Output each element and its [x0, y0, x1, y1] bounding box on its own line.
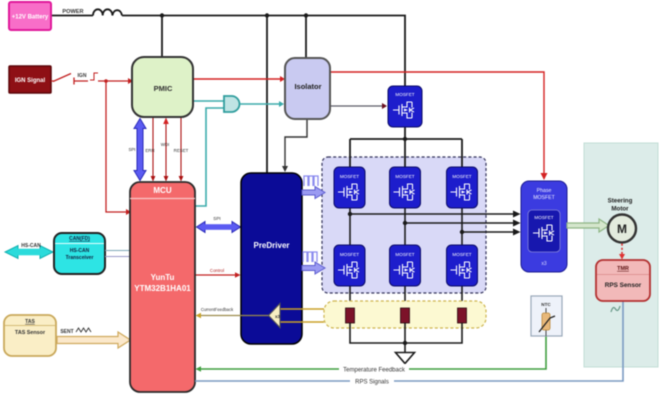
svg-text:MOSFET: MOSFET: [452, 252, 471, 257]
glyph RPS signal squiggle: [611, 306, 620, 312]
svg-text:MOSFET: MOSFET: [340, 252, 359, 257]
svg-text:SPI: SPI: [213, 216, 220, 221]
svg-text:YTM32B1HA01: YTM32B1HA01: [134, 284, 191, 293]
svg-text:+12V Battery: +12V Battery: [12, 15, 49, 21]
label Temperature Feedback: [339, 364, 409, 374]
MOSFET Q5: [390, 245, 421, 286]
Isolator U2: [285, 58, 330, 119]
svg-text:SPI: SPI: [128, 147, 135, 152]
svg-text:Temperature Feedback: Temperature Feedback: [343, 368, 406, 374]
svg-text:x3: x3: [541, 261, 547, 267]
svg-text:WDI: WDI: [161, 142, 170, 147]
svg-text:Steering: Steering: [608, 198, 633, 205]
wire CurrentFeedback to MCU: [196, 313, 269, 318]
label RESET: [174, 148, 189, 153]
svg-text:RPS Signals: RPS Signals: [355, 380, 389, 386]
PMIC U1: [132, 57, 193, 117]
TAS sensor: [4, 315, 56, 356]
MOSFET Q1: [334, 167, 365, 208]
node ground bus: [403, 341, 407, 345]
motor M1: [608, 215, 636, 243]
svg-text:x3: x3: [275, 314, 281, 319]
wire bank column A: [349, 208, 351, 245]
wire RESET: [179, 118, 184, 182]
arrow PreDriver to high side gates: [302, 187, 325, 199]
wire IGN to PMIC: [98, 78, 133, 84]
svg-text:Motor: Motor: [611, 206, 629, 213]
svg-text:Control: Control: [210, 268, 224, 273]
svg-text:PMIC: PMIC: [154, 84, 173, 93]
rising edge glyph IGN: [90, 73, 98, 80]
wire shunt sense top: [280, 308, 324, 310]
MOSFET bank (dashed box): [322, 157, 486, 293]
svg-text:PreDriver: PreDriver: [253, 241, 289, 250]
AND gate U3: [224, 96, 240, 112]
svg-text:MCU: MCU: [153, 186, 171, 195]
label HS-CAN: [21, 243, 41, 249]
MOSFET Q7 (reverse protection): [388, 86, 422, 127]
svg-text:CurrentFeedback: CurrentFeedback: [201, 307, 234, 312]
svg-text:ERR: ERR: [145, 148, 154, 153]
svg-text:CAN(FD): CAN(FD): [69, 236, 90, 242]
inductor L1: [93, 9, 122, 15]
shunt resistor RS3: [458, 308, 467, 323]
PreDriver U7: [241, 173, 302, 344]
svg-text:M: M: [617, 222, 627, 236]
ground: [396, 353, 415, 364]
wire power to PMIC: [161, 16, 163, 58]
label WDI: [161, 142, 170, 147]
svg-text:MOSFET: MOSFET: [395, 92, 414, 97]
wire phase A to Phase MOSFET: [350, 211, 521, 218]
SPI bus MCU-PreDriver (double arrow): [197, 222, 241, 233]
svg-text:MOSFET: MOSFET: [452, 174, 471, 179]
arrow Phase MOSFET to motor: [567, 219, 609, 232]
svg-text:NTC: NTC: [541, 302, 551, 307]
SPI bus PMIC-MCU (double arrow): [134, 119, 146, 181]
svg-text:POWER: POWER: [62, 9, 83, 15]
svg-text:Isolator: Isolator: [294, 82, 321, 91]
svg-text:MOSFET: MOSFET: [395, 174, 414, 179]
label SPI (PreDriver): [213, 216, 220, 221]
label POWER: [62, 9, 83, 15]
wire WDI: [163, 118, 169, 182]
steering motor panel: [584, 143, 658, 367]
shunt box (dashed): [324, 301, 486, 328]
node IGN branch: [104, 79, 108, 83]
switch IGN: [51, 74, 88, 85]
svg-text:RPS Sensor: RPS Sensor: [605, 282, 642, 289]
arrow TAS to MCU: [57, 332, 131, 348]
MOSFET Q2: [390, 167, 421, 208]
glyph SENT waveform: [76, 328, 91, 332]
glyph PWM pulses low side: [303, 252, 317, 262]
MOSFET Q6: [447, 245, 478, 286]
wire bank columns to shunts: [350, 285, 462, 308]
node power-Isolator: [304, 13, 308, 17]
wire top MOSFET to bank feed: [350, 127, 462, 167]
svg-text:IGN: IGN: [78, 73, 87, 79]
wire Temperature Feedback: [196, 336, 547, 372]
CAN transceiver U4: [54, 233, 105, 274]
wire ERR: [151, 118, 156, 182]
label CurrentFeedback: [201, 307, 234, 312]
RPS sensor U8: [596, 260, 650, 301]
wire shunt sense bottom: [280, 321, 324, 323]
label RPS Signals: [350, 377, 394, 386]
shunt resistor RS2: [401, 308, 410, 323]
wire RPS Signals: [195, 301, 623, 381]
svg-text:SENT: SENT: [60, 329, 73, 335]
label SPI (PMIC): [128, 147, 135, 152]
wire Control: [195, 272, 241, 277]
MCU U5: [130, 182, 195, 392]
MOSFET Q4: [334, 245, 365, 286]
wire Isolator to PreDriver (black): [282, 119, 307, 172]
svg-text:HS-CAN: HS-CAN: [21, 243, 41, 249]
label SENT: [60, 329, 73, 335]
svg-text:IGN Signal: IGN Signal: [15, 78, 46, 84]
label ERR: [145, 148, 154, 153]
node bank feed: [403, 137, 407, 141]
node phase C: [460, 230, 464, 234]
Phase MOSFET U6: [521, 181, 567, 272]
wire Isolator to Phase MOSFET (red): [330, 72, 548, 180]
wire motor to RPS sensor (red dashed): [619, 244, 625, 260]
label Control: [210, 268, 224, 273]
wire Isolator to top MOSFET (grey): [330, 103, 387, 109]
wire shunt ground bus: [350, 323, 462, 352]
wire PMIC enable (teal) to gate: [193, 100, 224, 102]
battery +12V: [9, 2, 51, 30]
svg-text:MOSFET: MOSFET: [534, 215, 553, 220]
HS-CAN bus arrow: [5, 246, 53, 259]
wire phase B to Phase MOSFET: [405, 220, 521, 227]
svg-text:MOSFET: MOSFET: [340, 174, 359, 179]
wire bank column B: [404, 208, 406, 245]
svg-text:YunTu: YunTu: [151, 273, 175, 282]
svg-text:Phase: Phase: [537, 188, 552, 194]
wire power to PreDriver: [266, 16, 268, 174]
IGN signal source: [9, 66, 51, 93]
svg-text:MOSFET: MOSFET: [395, 252, 414, 257]
wire CAN TX: [105, 250, 130, 252]
wire CAN RX: [105, 256, 130, 258]
svg-text:MOSFET: MOSFET: [533, 195, 555, 201]
MOSFET Q3: [447, 167, 478, 208]
wire IGN to MCU: [106, 81, 131, 215]
shunt resistor RS1: [346, 308, 355, 323]
thermistor NTC: [531, 296, 562, 336]
wire phase C to Phase MOSFET: [462, 229, 521, 236]
wire MCU enable (teal) to gate: [195, 108, 224, 206]
node power-PreDriver: [265, 13, 269, 17]
label IGN: [78, 73, 87, 79]
node phase B: [403, 221, 407, 225]
wire power to Isolator: [305, 16, 307, 59]
svg-text:TAS: TAS: [25, 319, 35, 325]
node power-PMIC: [160, 13, 164, 17]
op-amp current sense x3: [269, 304, 281, 328]
glyph PWM pulses high side: [304, 176, 318, 186]
svg-text:Transceiver: Transceiver: [66, 255, 94, 261]
wire gate to Isolator (teal): [240, 101, 285, 107]
wire POWER bus: [51, 16, 405, 87]
svg-text:TMR: TMR: [617, 266, 629, 272]
arrow PreDriver to low side gates: [302, 262, 325, 274]
wire bank column C: [461, 208, 463, 245]
svg-text:RESET: RESET: [174, 148, 189, 153]
node phase A: [348, 212, 352, 216]
svg-text:HS-CAN: HS-CAN: [70, 248, 90, 254]
wire PMIC to Isolator (VCC red): [193, 76, 285, 82]
label Steering Motor: [608, 198, 633, 213]
svg-text:TAS Sensor: TAS Sensor: [15, 330, 46, 336]
